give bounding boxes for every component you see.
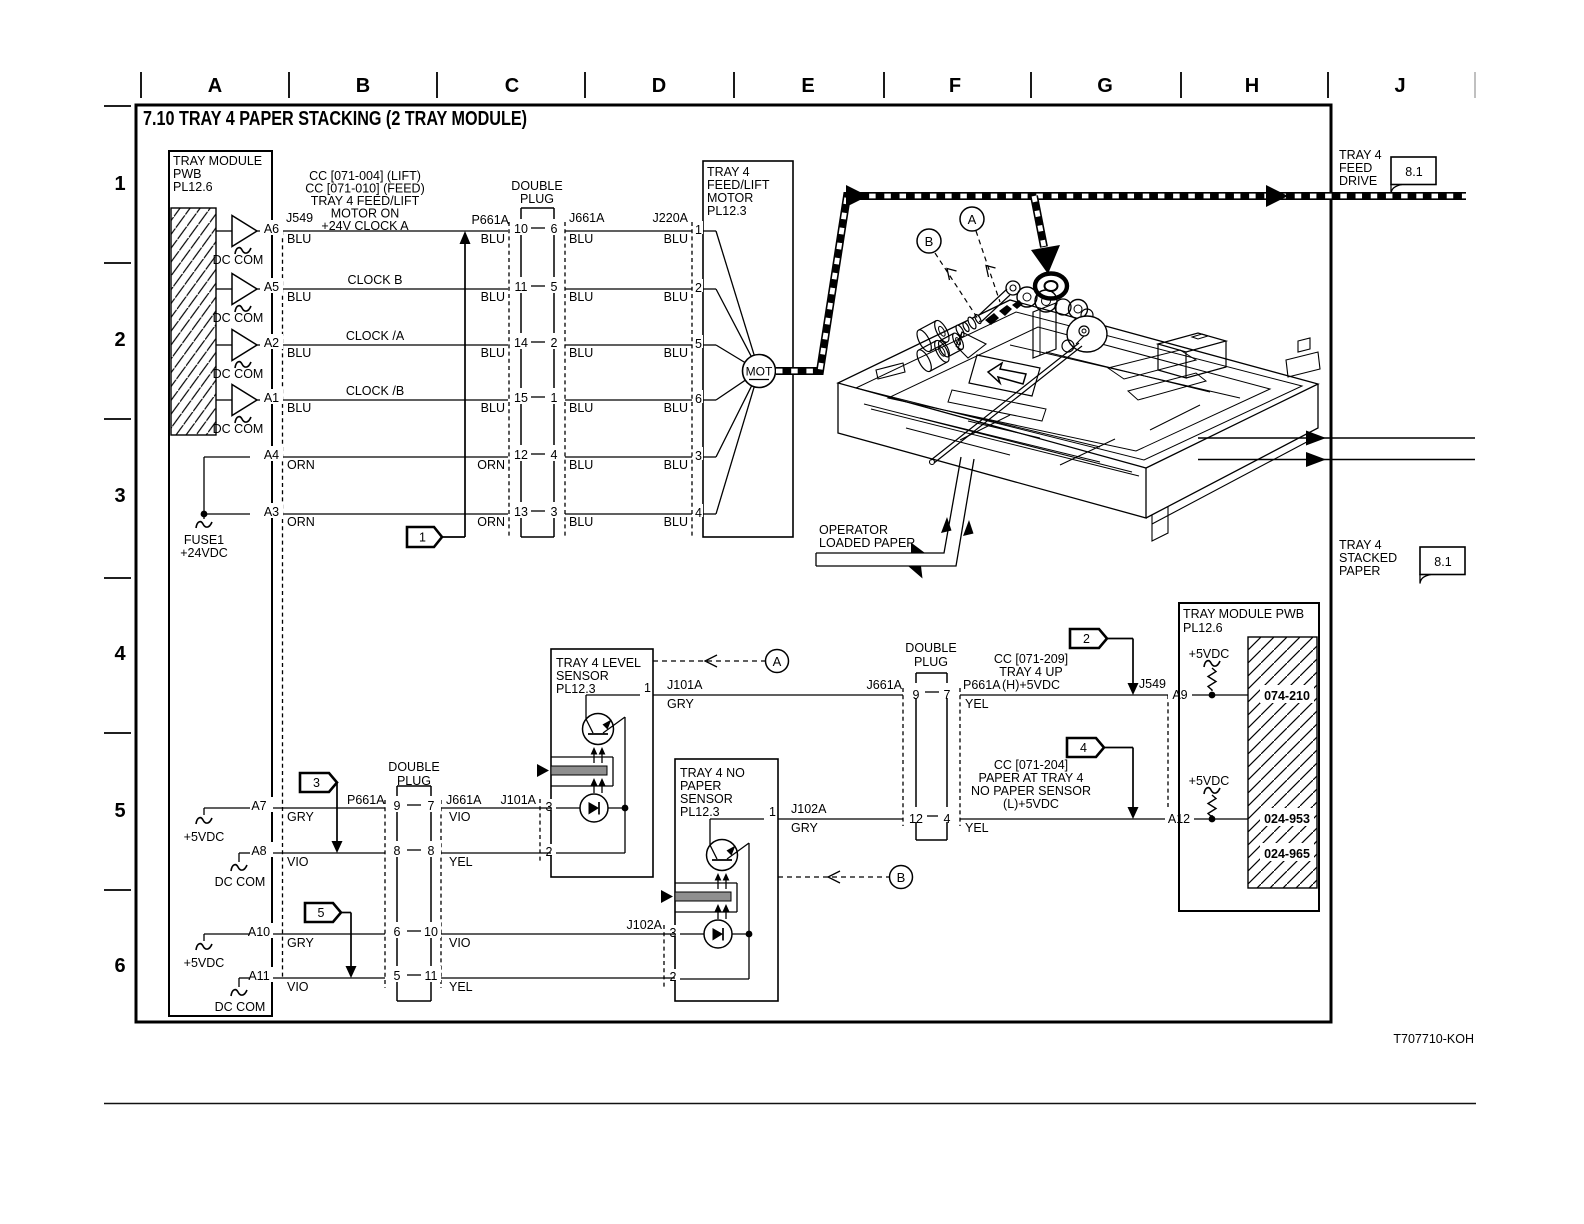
svg-text:A8: A8 bbox=[251, 844, 266, 858]
svg-text:6: 6 bbox=[551, 222, 558, 236]
row numbers 1-6 bbox=[114, 173, 126, 977]
svg-text:PL12.3: PL12.3 bbox=[680, 805, 720, 819]
drive gear 1 bbox=[1017, 287, 1037, 307]
motor pin 3 wire bbox=[694, 447, 703, 460]
sensor flag channel (level sensor) bbox=[551, 756, 613, 758]
svg-text:074-210: 074-210 bbox=[1264, 689, 1310, 703]
connector P661A dashed line (upper) bbox=[508, 222, 510, 537]
tray corner latch bbox=[1286, 352, 1320, 377]
svg-text:YEL: YEL bbox=[449, 980, 473, 994]
svg-text:14: 14 bbox=[514, 336, 528, 350]
wire row A8 y=853 bbox=[250, 852, 540, 854]
balloon A (level sensor) bbox=[766, 650, 789, 673]
svg-text:5: 5 bbox=[114, 800, 125, 822]
no paper sensor pin 3 bbox=[667, 925, 680, 936]
flag 2 arrowhead bbox=[1128, 683, 1139, 695]
pin label A8 bbox=[246, 842, 273, 857]
svg-text:DOUBLE: DOUBLE bbox=[511, 179, 562, 193]
svg-text:G: G bbox=[1097, 75, 1113, 97]
CC fault code note (tray 4 up) bbox=[994, 652, 1068, 692]
svg-text:YEL: YEL bbox=[965, 697, 989, 711]
svg-text:024-953: 024-953 bbox=[1264, 812, 1310, 826]
svg-text:GRY: GRY bbox=[667, 697, 695, 711]
pin label A11 bbox=[246, 967, 273, 982]
pullup resistor (A12) bbox=[1204, 788, 1220, 794]
wire row A10 y=934 bbox=[250, 933, 664, 935]
double plug pin 9-7 (row A7) bbox=[387, 796, 407, 812]
balloon A leader arrow (level sensor) bbox=[705, 655, 717, 667]
svg-text:11: 11 bbox=[515, 280, 528, 294]
DC COM at A11 bbox=[239, 977, 250, 979]
buffer amplifier at A1 bbox=[232, 385, 257, 416]
wire row A5 y=289 bbox=[216, 288, 692, 290]
svg-text:BLU: BLU bbox=[481, 401, 505, 415]
no paper sensor pin3 wire stub bbox=[664, 933, 675, 935]
svg-text:TRAY MODULE PWB: TRAY MODULE PWB bbox=[1183, 607, 1304, 621]
svg-text:10: 10 bbox=[514, 222, 528, 236]
svg-text:2: 2 bbox=[695, 281, 702, 295]
svg-text:3: 3 bbox=[695, 449, 702, 463]
svg-text:4: 4 bbox=[551, 448, 558, 462]
balloon A leader dashed (level sensor) bbox=[653, 660, 765, 662]
svg-text:YEL: YEL bbox=[449, 855, 473, 869]
balloon A (tray) bbox=[960, 207, 984, 231]
pick clip 3 bbox=[1012, 300, 1023, 309]
wire row A4 y=457 bbox=[204, 456, 692, 458]
svg-text:5: 5 bbox=[318, 906, 325, 920]
svg-text:4: 4 bbox=[695, 506, 702, 520]
svg-text:4: 4 bbox=[114, 643, 126, 665]
svg-text:TRAY MODULE: TRAY MODULE bbox=[173, 154, 262, 168]
feed roller 3 bbox=[936, 332, 965, 359]
FUSE1 +24VDC symbol bbox=[196, 522, 212, 528]
phototransistor emitter (level sensor) bbox=[603, 717, 625, 733]
phototransistor base bar (level sensor) bbox=[588, 733, 608, 735]
fault code 024-953 bbox=[1260, 808, 1314, 826]
svg-text:DC COM: DC COM bbox=[215, 875, 266, 889]
svg-text:J661A: J661A bbox=[569, 211, 605, 225]
pin label A1 bbox=[260, 389, 283, 404]
right PWB hatched region bbox=[1248, 637, 1317, 888]
svg-text:9: 9 bbox=[913, 688, 920, 702]
svg-text:J101A: J101A bbox=[667, 678, 703, 692]
connector J220A dashed line bbox=[691, 222, 693, 537]
svg-text:GRY: GRY bbox=[791, 821, 819, 835]
svg-text:12: 12 bbox=[909, 812, 923, 826]
svg-text:DC COM: DC COM bbox=[213, 311, 264, 325]
wire row A6 y=231 bbox=[216, 230, 692, 232]
svg-text:J: J bbox=[1394, 75, 1405, 97]
checkered drive path (MOT to tray 4 feed drive) bbox=[776, 196, 1466, 371]
svg-text:LOADED PAPER: LOADED PAPER bbox=[819, 536, 915, 550]
pin label A5 bbox=[260, 278, 283, 293]
svg-text:FUSE1: FUSE1 bbox=[184, 533, 224, 547]
sensor flag channel (no paper sensor) bbox=[675, 882, 737, 884]
emitter vertical wire (level sensor) bbox=[624, 717, 626, 853]
flag entry arrow (level sensor) bbox=[537, 764, 549, 777]
phototransistor circle (level sensor) bbox=[583, 714, 614, 745]
wire J101A GRY (level sensor pin1 to plug) bbox=[653, 694, 903, 696]
svg-text:A5: A5 bbox=[264, 280, 279, 294]
tray cross rib 2 bbox=[1060, 439, 1115, 465]
svg-text:2: 2 bbox=[670, 970, 677, 984]
buffer amplifier at A6 bbox=[232, 216, 257, 247]
svg-text:H: H bbox=[1245, 75, 1259, 97]
svg-text:BLU: BLU bbox=[664, 232, 688, 246]
tray front wall bbox=[838, 383, 1146, 518]
connector J549 dashed line (left) bbox=[282, 231, 284, 978]
svg-text:BLU: BLU bbox=[569, 346, 593, 360]
svg-text:J102A: J102A bbox=[791, 802, 827, 816]
svg-text:SENSOR: SENSOR bbox=[556, 669, 609, 683]
drive gear 4 bbox=[1069, 300, 1088, 319]
svg-text:CC [071-204]: CC [071-204] bbox=[994, 758, 1068, 772]
pointer flag 1 bbox=[407, 527, 442, 547]
svg-text:CLOCK /B: CLOCK /B bbox=[346, 384, 404, 398]
svg-text:BLU: BLU bbox=[569, 515, 593, 529]
svg-text:3: 3 bbox=[551, 505, 558, 519]
row ruler ticks bbox=[104, 106, 131, 890]
svg-text:BLU: BLU bbox=[664, 458, 688, 472]
connector J661A dashed line (lower right) bbox=[902, 688, 904, 826]
svg-text:DC COM: DC COM bbox=[215, 1000, 266, 1014]
svg-text:BLU: BLU bbox=[569, 458, 593, 472]
svg-text:DC COM: DC COM bbox=[213, 253, 264, 267]
LED diode symbol (level sensor) bbox=[589, 802, 600, 815]
double plug pin 10-6 (row A6) bbox=[510, 219, 532, 235]
svg-text:BLU: BLU bbox=[287, 401, 311, 415]
svg-text:5: 5 bbox=[394, 969, 401, 983]
fault code 024-965 bbox=[1260, 843, 1314, 861]
svg-text:ORN: ORN bbox=[477, 458, 505, 472]
svg-text:1: 1 bbox=[419, 531, 426, 545]
balloon B leader dashed bbox=[935, 253, 980, 322]
svg-text:BLU: BLU bbox=[664, 346, 688, 360]
wire row A1 y=400 bbox=[216, 399, 692, 401]
LED wire (level sensor) bbox=[551, 807, 580, 809]
svg-text:GRY: GRY bbox=[287, 936, 315, 950]
+5VDC source at A10 bbox=[204, 933, 250, 935]
svg-text:J220A: J220A bbox=[653, 211, 689, 225]
svg-text:PAPER: PAPER bbox=[680, 779, 721, 793]
svg-text:VIO: VIO bbox=[449, 936, 471, 950]
feed shaft arrowhead bbox=[1031, 245, 1060, 274]
svg-text:A4: A4 bbox=[264, 448, 279, 462]
svg-text:7: 7 bbox=[428, 799, 435, 813]
svg-text:NO PAPER SENSOR: NO PAPER SENSOR bbox=[971, 784, 1091, 798]
flag 1 up arrowhead bbox=[460, 231, 471, 244]
svg-text:C: C bbox=[505, 75, 519, 97]
svg-text:8.1: 8.1 bbox=[1434, 555, 1451, 569]
sensor flag bar (level sensor) bbox=[551, 766, 607, 775]
svg-text:TRAY 4: TRAY 4 bbox=[1339, 538, 1382, 552]
tray floor rib 1 bbox=[920, 418, 1100, 462]
double plug pin 5-11 (row A11) bbox=[387, 966, 407, 982]
phototransistor collector (no paper sensor) bbox=[710, 845, 717, 859]
double plug frame (lower right) bbox=[916, 672, 947, 674]
svg-text:7: 7 bbox=[944, 688, 951, 702]
svg-text:A1: A1 bbox=[264, 391, 279, 405]
svg-text:TRAY 4 UP: TRAY 4 UP bbox=[999, 665, 1062, 679]
svg-text:BLU: BLU bbox=[481, 290, 505, 304]
tray outer rim bbox=[838, 300, 1318, 468]
svg-text:PAPER: PAPER bbox=[1339, 564, 1380, 578]
drawing frame border bbox=[136, 105, 1331, 1022]
svg-text:BLU: BLU bbox=[569, 232, 593, 246]
pointer flag 5 bbox=[305, 903, 341, 922]
DC COM symbol under A1 buffer bbox=[235, 417, 251, 423]
tray front corner notch bbox=[1152, 507, 1168, 541]
svg-text:VIO: VIO bbox=[449, 810, 471, 824]
wire A12 into PWB bbox=[1168, 818, 1248, 820]
svg-text:T707710-KOH: T707710-KOH bbox=[1393, 1032, 1474, 1046]
svg-text:MOT: MOT bbox=[746, 365, 773, 379]
svg-text:2: 2 bbox=[546, 845, 553, 859]
wire row A11 y=978 bbox=[250, 977, 664, 979]
svg-text:D: D bbox=[652, 75, 666, 97]
svg-text:PLUG: PLUG bbox=[520, 192, 554, 206]
svg-text:DC COM: DC COM bbox=[213, 422, 264, 436]
flag 4 drop wire bbox=[1132, 748, 1134, 810]
tray 4 feed/lift motor box bbox=[703, 161, 793, 537]
balloon B (no paper sensor) bbox=[890, 866, 913, 889]
svg-text:3: 3 bbox=[313, 776, 320, 790]
tray inner rim bbox=[856, 312, 1302, 460]
operator paper arrow up 1 bbox=[941, 517, 952, 533]
wire A9 YEL (plug to J549) bbox=[960, 694, 1168, 696]
stacked paper arrowhead lower bbox=[1306, 452, 1326, 467]
svg-text:TRAY 4 NO: TRAY 4 NO bbox=[680, 766, 745, 780]
CC fault code note (motor on) bbox=[305, 169, 424, 233]
svg-text:VIO: VIO bbox=[287, 855, 309, 869]
svg-text:1: 1 bbox=[114, 173, 125, 195]
feed shaft bbox=[978, 289, 1007, 316]
tray arrow plate bbox=[969, 355, 1040, 396]
balloon B (tray) bbox=[917, 229, 941, 253]
tray 4 no paper sensor box bbox=[675, 759, 778, 1001]
wire A12 YEL (plug to J549) bbox=[960, 818, 1168, 820]
svg-text:5: 5 bbox=[551, 280, 558, 294]
tray module PWB box (right) bbox=[1179, 603, 1319, 911]
svg-text:ORN: ORN bbox=[477, 515, 505, 529]
motor pin 5 wire bbox=[694, 335, 703, 348]
svg-text:CLOCK /A: CLOCK /A bbox=[346, 329, 405, 343]
svg-text:10: 10 bbox=[424, 925, 438, 939]
svg-text:4: 4 bbox=[944, 812, 951, 826]
svg-text:+5VDC: +5VDC bbox=[184, 830, 225, 844]
motor pin 4 wire bbox=[694, 504, 703, 517]
LED diode symbol (no paper sensor) bbox=[713, 928, 724, 941]
svg-text:B: B bbox=[356, 75, 370, 97]
tray cross rib 1 bbox=[960, 415, 1010, 440]
LED circle (no paper sensor) bbox=[704, 920, 732, 948]
tray left rim tab bbox=[876, 363, 905, 379]
drive path arrowhead left bbox=[846, 185, 868, 207]
level sensor pin2 wire stub bbox=[540, 852, 551, 854]
svg-text:6: 6 bbox=[394, 925, 401, 939]
feed roller 1 bbox=[914, 318, 952, 353]
svg-text:4: 4 bbox=[1080, 741, 1087, 755]
operator paper arrow right bbox=[911, 543, 925, 554]
double plug frame (upper) bbox=[521, 207, 554, 209]
tray back-right box bbox=[1158, 333, 1226, 352]
sector rod bbox=[931, 343, 1079, 460]
svg-text:PLUG: PLUG bbox=[914, 655, 948, 669]
column letters A-J bbox=[208, 75, 1406, 97]
tray right wall bbox=[1146, 384, 1318, 518]
svg-text:A11: A11 bbox=[248, 969, 269, 983]
footer separator line bbox=[104, 1103, 1476, 1105]
buffer amplifier at A5 bbox=[232, 274, 257, 305]
svg-text:9: 9 bbox=[394, 799, 401, 813]
svg-text:15: 15 bbox=[514, 391, 528, 405]
stacked paper arrowhead upper bbox=[1306, 431, 1326, 446]
double plug pin 15-1 (row A1) bbox=[510, 388, 532, 404]
svg-text:J102A: J102A bbox=[627, 918, 663, 932]
wire J102A GRY (no paper pin1 to plug) bbox=[778, 818, 903, 820]
svg-text:+5VDC: +5VDC bbox=[184, 956, 225, 970]
svg-text:F: F bbox=[949, 75, 961, 97]
tray front rim band lines bbox=[864, 404, 1132, 472]
pullup resistor (A9) bbox=[1204, 661, 1220, 667]
double plug pin 12-4 (row A12) bbox=[906, 807, 927, 822]
tray right pocket bbox=[1108, 350, 1196, 379]
svg-text:J661A: J661A bbox=[446, 793, 482, 807]
svg-text:A: A bbox=[968, 212, 977, 227]
svg-text:PL12.6: PL12.6 bbox=[173, 180, 213, 194]
svg-text:PAPER AT TRAY 4: PAPER AT TRAY 4 bbox=[979, 771, 1084, 785]
svg-text:B: B bbox=[925, 234, 934, 249]
svg-text:DOUBLE: DOUBLE bbox=[905, 641, 956, 655]
pin label A3 bbox=[260, 503, 283, 518]
LED circle (level sensor) bbox=[580, 794, 608, 822]
tray module PWB box (left) bbox=[169, 151, 272, 1016]
pin label A4 bbox=[260, 446, 283, 461]
double plug frame (lower left) bbox=[397, 785, 431, 787]
svg-text:2: 2 bbox=[551, 336, 558, 350]
balloon A leader dashed bbox=[976, 231, 1000, 302]
light arrows lower (level sensor) bbox=[593, 782, 595, 793]
double plug pin 8-8 (row A8) bbox=[387, 841, 407, 857]
svg-text:TRAY 4: TRAY 4 bbox=[707, 165, 750, 179]
connector J661A dashed line (upper) bbox=[564, 222, 566, 537]
svg-text:7.10 TRAY 4 PAPER STACKING (2: 7.10 TRAY 4 PAPER STACKING (2 TRAY MODUL… bbox=[143, 108, 527, 130]
svg-text:J549: J549 bbox=[286, 211, 313, 225]
flag 1 riser wire bbox=[464, 243, 466, 537]
svg-text:A2: A2 bbox=[264, 336, 279, 350]
fault code 074-210 bbox=[1260, 685, 1314, 703]
svg-text:STACKED: STACKED bbox=[1339, 551, 1397, 565]
wire row A2 y=345 bbox=[216, 344, 692, 346]
svg-text:+24V CLOCK A: +24V CLOCK A bbox=[321, 219, 409, 233]
pointer flag 4 bbox=[1067, 738, 1104, 757]
connector P661A dashed line (lower left) bbox=[384, 800, 386, 988]
svg-text:13: 13 bbox=[514, 505, 528, 519]
svg-text:BLU: BLU bbox=[481, 232, 505, 246]
svg-text:MOTOR: MOTOR bbox=[707, 191, 753, 205]
flag 3 drop wire bbox=[336, 783, 338, 844]
roller bracket bbox=[956, 332, 986, 358]
svg-text:5: 5 bbox=[695, 337, 702, 351]
shaft end flange bbox=[1006, 281, 1020, 295]
fuse rail vertical wire bbox=[203, 457, 205, 519]
svg-text:YEL: YEL bbox=[965, 821, 989, 835]
pin label A9 bbox=[1168, 686, 1192, 701]
balloon A leader arrow bbox=[986, 266, 996, 278]
DC COM symbol under A6 buffer bbox=[235, 248, 251, 254]
phototransistor emitter (no paper sensor) bbox=[727, 843, 749, 859]
svg-text:TRAY 4: TRAY 4 bbox=[1339, 148, 1382, 162]
svg-text:PL12.6: PL12.6 bbox=[1183, 621, 1223, 635]
flag 3 arrowhead bbox=[332, 841, 343, 853]
svg-text:SENSOR: SENSOR bbox=[680, 792, 733, 806]
operator paper arrow up 2 bbox=[963, 520, 974, 536]
svg-text:A7: A7 bbox=[251, 799, 266, 813]
tray floor outline bbox=[888, 327, 1270, 451]
svg-text:8: 8 bbox=[394, 844, 401, 858]
pick clip 2 bbox=[999, 305, 1012, 316]
tray cross rib 3 bbox=[1150, 405, 1200, 430]
emitter vertical wire (no paper sensor) bbox=[748, 843, 750, 979]
connector J102A dashed line bbox=[663, 925, 665, 987]
svg-text:BLU: BLU bbox=[569, 290, 593, 304]
tray arrow emblem bbox=[988, 363, 1026, 384]
svg-text:A3: A3 bbox=[264, 505, 279, 519]
lift wheel bbox=[1067, 316, 1107, 352]
svg-text:FEED/LIFT: FEED/LIFT bbox=[707, 178, 770, 192]
tray floor rib 4 bbox=[1046, 352, 1210, 392]
svg-text:8: 8 bbox=[428, 844, 435, 858]
svg-text:PL12.3: PL12.3 bbox=[556, 682, 596, 696]
svg-text:6: 6 bbox=[114, 955, 125, 977]
light arrows lower (no paper sensor) bbox=[717, 908, 719, 919]
DC COM symbol under A2 buffer bbox=[235, 362, 251, 368]
svg-text:TRAY 4 LEVEL: TRAY 4 LEVEL bbox=[556, 656, 641, 670]
svg-text:J101A: J101A bbox=[501, 793, 537, 807]
svg-text:DOUBLE: DOUBLE bbox=[388, 760, 439, 774]
pin label A10 bbox=[246, 923, 273, 938]
flag 5 drop wire bbox=[350, 913, 352, 969]
svg-text:VIO: VIO bbox=[287, 980, 309, 994]
svg-text:1: 1 bbox=[551, 391, 558, 405]
operator paper path bbox=[816, 457, 961, 553]
drive gear 5 bbox=[1081, 309, 1093, 321]
connector J101A dashed line bbox=[539, 799, 541, 862]
svg-text:024-965: 024-965 bbox=[1264, 847, 1310, 861]
double plug pin 12-4 (row A4) bbox=[510, 445, 532, 461]
svg-text:P661A: P661A bbox=[471, 213, 509, 227]
svg-text:OPERATOR: OPERATOR bbox=[819, 523, 888, 537]
phototransistor circle (no paper sensor) bbox=[707, 840, 738, 871]
sensor flag bar (no paper sensor) bbox=[675, 892, 731, 901]
tray floor rib 3 bbox=[1010, 345, 1240, 398]
svg-text:J549: J549 bbox=[1139, 677, 1166, 691]
double plug pin 14-2 (row A2) bbox=[510, 333, 532, 349]
drive pulley housing bbox=[1035, 274, 1067, 299]
svg-text:+5VDC: +5VDC bbox=[1189, 774, 1230, 788]
LED wire (no paper sensor) bbox=[675, 933, 704, 935]
svg-text:1: 1 bbox=[769, 805, 776, 819]
svg-text:E: E bbox=[801, 75, 814, 97]
light arrows upper (level sensor) bbox=[593, 752, 595, 763]
motor MOT symbol bbox=[743, 355, 776, 388]
tray under rail bbox=[1152, 436, 1318, 524]
balloon B leader arrow bbox=[947, 269, 957, 281]
svg-text:A: A bbox=[208, 75, 222, 97]
balloon B leader arrow (no paper sensor) bbox=[828, 871, 840, 883]
svg-text:BLU: BLU bbox=[569, 401, 593, 415]
svg-text:PLUG: PLUG bbox=[397, 774, 431, 788]
